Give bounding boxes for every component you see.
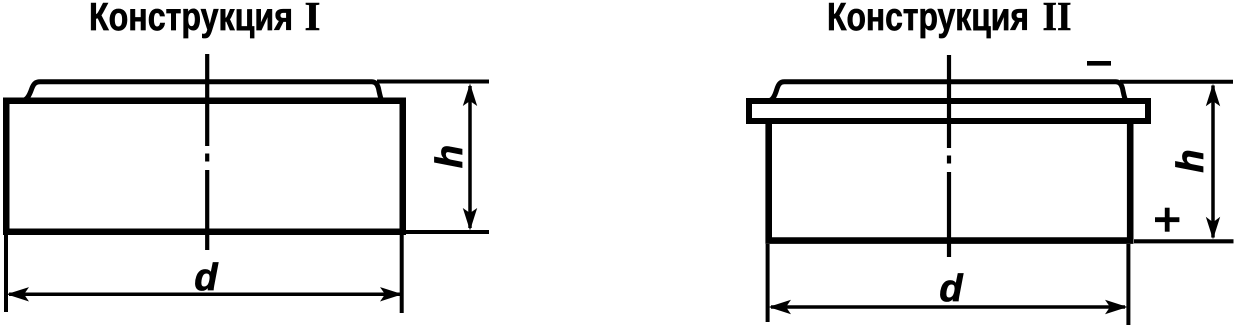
d dim I: left extension line bbox=[4, 235, 8, 312]
h dim I: arrow up bbox=[463, 84, 477, 107]
h dim I: arrow down bbox=[463, 208, 477, 231]
d dim I: arrow left bbox=[7, 287, 30, 301]
plus (positive terminal mark) bbox=[1155, 208, 1179, 232]
h dim II: bottom extension line bbox=[1134, 239, 1234, 243]
svg-text:Конструкция: Конструкция bbox=[89, 0, 293, 39]
h dim II: dimension line bbox=[1211, 86, 1215, 238]
h dim I: dimension line bbox=[468, 86, 472, 228]
d dim II: dimension line bbox=[771, 305, 1125, 309]
d dim II: arrow right bbox=[1105, 300, 1128, 314]
h dim II: arrow down bbox=[1206, 217, 1220, 240]
lid (negative cap) II bbox=[767, 82, 1126, 102]
svg-text:d: d bbox=[939, 268, 963, 310]
d dim II: left extension line bbox=[766, 244, 770, 322]
svg-text:h: h bbox=[429, 145, 471, 168]
can body I bbox=[6, 101, 403, 232]
h dim I: bottom extension line bbox=[406, 230, 489, 234]
centerline I (dash-dot) bbox=[205, 54, 209, 250]
h dim I: top extension line bbox=[377, 80, 489, 84]
svg-text:d: d bbox=[194, 257, 218, 299]
svg-text:Конструкция: Конструкция bbox=[827, 0, 1029, 39]
h dim II: top extension line bbox=[1120, 80, 1233, 84]
flange (gasket rim) II bbox=[749, 101, 1148, 121]
svg-text:h: h bbox=[1170, 149, 1212, 172]
can body II (U shape) bbox=[769, 122, 1130, 241]
minus (negative terminal mark) bbox=[1087, 61, 1111, 66]
title: Конструкция I bbox=[89, 0, 320, 39]
d dim II: arrow left bbox=[769, 300, 792, 314]
h dim II: arrow up bbox=[1206, 84, 1220, 107]
centerline II (dash-dot) bbox=[947, 55, 951, 257]
title: Конструкция II bbox=[827, 0, 1072, 39]
svg-text:I: I bbox=[305, 0, 321, 39]
d dim II: right extension line bbox=[1126, 244, 1130, 325]
d dim I: dimension line bbox=[9, 293, 400, 297]
svg-text:II: II bbox=[1043, 0, 1072, 39]
d dim I: arrow right bbox=[380, 287, 403, 301]
lid (negative cap) I bbox=[21, 82, 383, 102]
d dim I: right extension line bbox=[400, 235, 404, 313]
